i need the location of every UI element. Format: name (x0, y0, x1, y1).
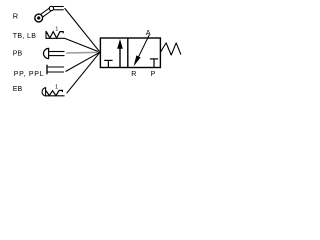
button cap (42, 88, 46, 96)
valve V1 body (3/2 valve, two position boxes) (100, 38, 160, 68)
svg-text:R: R (131, 71, 136, 78)
svg-text:R: R (13, 11, 18, 20)
wire EB to valve (67, 52, 100, 93)
detent zigzag (46, 32, 63, 38)
lever arm double line (41, 8, 50, 14)
wire PP,PPL to valve (66, 52, 101, 71)
detent zigzag (46, 90, 62, 95)
blocked port T in left box (104, 60, 112, 67)
svg-text:EB: EB (13, 86, 23, 93)
detent baseline (46, 95, 65, 97)
valve outer box (100, 38, 160, 68)
spring return on right side (160, 43, 181, 55)
push button symbol (43, 48, 64, 58)
detent end bar (45, 31, 47, 39)
detent symbol with position digit 1 (46, 31, 65, 39)
flow arrow up in left box (119, 48, 121, 68)
button stem double line (49, 51, 65, 53)
lever double horizontal line (53, 6, 64, 8)
wire TB,LB to valve (65, 38, 101, 52)
svg-text:TB, LB: TB, LB (13, 33, 37, 40)
button cap (43, 48, 48, 58)
wire R to valve (65, 8, 100, 52)
blocked port T in right box (150, 59, 158, 67)
flow arrow diagonal in right box (A to R) (138, 35, 149, 58)
wire PB to valve (gray) (66, 51, 100, 54)
plunger end bar (46, 65, 48, 75)
svg-text:A: A (146, 28, 151, 37)
roller outer circle (35, 14, 43, 22)
svg-text:1: 1 (55, 26, 58, 32)
detent baseline (46, 37, 65, 39)
svg-text:P: P (151, 71, 156, 78)
roller pin dot (37, 16, 40, 19)
roller lever actuator symbol (35, 6, 64, 22)
svg-text:PB: PB (13, 51, 23, 58)
plunger double line (48, 66, 65, 68)
svg-text:PP, PPL: PP, PPL (14, 71, 44, 78)
valve position divider (127, 38, 129, 68)
plunger symbol (47, 65, 64, 75)
svg-text:1: 1 (55, 85, 58, 91)
lever pivot small circle (49, 6, 53, 10)
extended button with detent symbol (42, 88, 64, 96)
